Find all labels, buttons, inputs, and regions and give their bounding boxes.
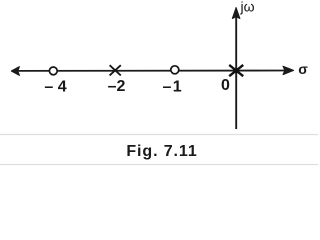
zero O at s=-1 bbox=[171, 66, 179, 74]
label 0 bbox=[221, 77, 230, 94]
top arrowhead of jw axis bbox=[232, 8, 240, 19]
caption rule below bbox=[0, 164, 318, 166]
sigma axis (real axis wire) bbox=[16, 70, 287, 72]
label -2 bbox=[108, 78, 126, 95]
pole X at origin s=0 bbox=[229, 65, 243, 76]
svg-text:0: 0 bbox=[221, 77, 230, 94]
label -1 bbox=[162, 78, 183, 95]
caption Fig. 7.11 bbox=[126, 143, 197, 160]
pole X at s=-2 bbox=[110, 65, 121, 75]
svg-text:–2: –2 bbox=[108, 78, 126, 95]
svg-text:– 4: – 4 bbox=[44, 79, 66, 96]
svg-text:σ: σ bbox=[298, 61, 308, 77]
left arrowhead of sigma axis bbox=[11, 67, 19, 76]
zero O at s=-4 bbox=[49, 67, 57, 75]
label -4 bbox=[44, 79, 66, 96]
caption rule above bbox=[0, 134, 318, 136]
axis label jw bbox=[240, 0, 255, 15]
axis label sigma bbox=[298, 61, 308, 77]
right arrowhead of sigma axis bbox=[283, 66, 294, 74]
svg-text:jω: jω bbox=[240, 0, 255, 15]
jw axis (imaginary axis wire) bbox=[235, 15, 237, 129]
svg-text:–1: –1 bbox=[162, 78, 183, 95]
svg-text:Fig. 7.11: Fig. 7.11 bbox=[126, 143, 197, 160]
